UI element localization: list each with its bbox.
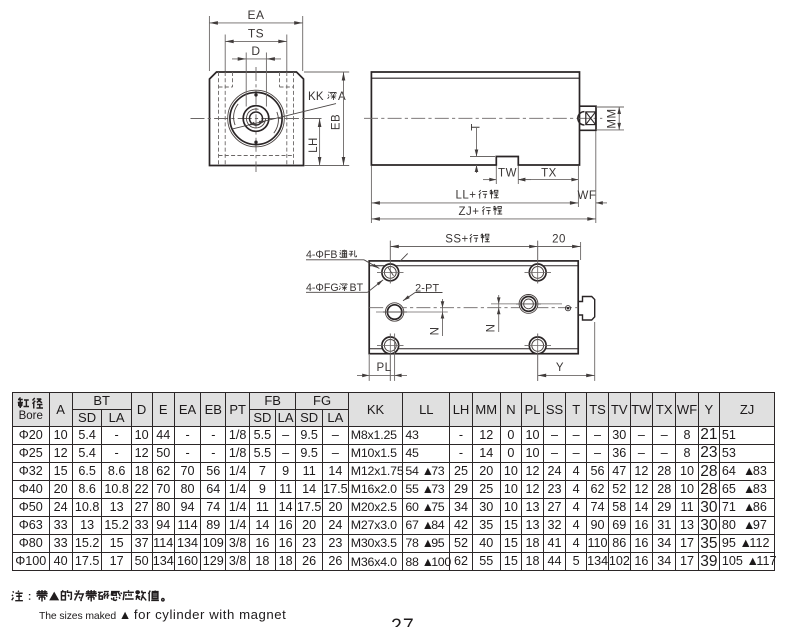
svg-text:PL: PL [376,362,391,374]
svg-text:WF: WF [578,190,597,202]
hole centerline top-left [389,241,391,284]
dim EA extension lines [208,16,210,71]
right port PT [519,295,538,314]
dim EB line [343,72,345,166]
svg-text:TW: TW [498,168,517,180]
front view bore circle thin [228,90,285,147]
dim T extension line [470,156,495,158]
right port center line [491,303,562,305]
svg-text:TX: TX [541,168,557,180]
svg-text:LL+: LL+ [455,190,476,202]
mounting hole FB bottom-left [382,337,399,354]
svg-text:Y: Y [556,362,564,374]
svg-text:EA: EA [247,8,264,22]
svg-text:D: D [251,44,260,58]
front view rod boss circle [243,106,269,132]
dim TW line [483,179,496,181]
rod thread hole arc [578,112,585,125]
rod thread X box [586,112,596,125]
front view KK thread minor circle [250,112,263,125]
front view vertical centerline [255,67,257,172]
dim TX line [518,179,578,181]
svg-text:LH: LH [308,137,320,153]
note line english [39,607,286,622]
dim D line [232,58,281,60]
svg-text:SS+: SS+ [445,234,469,246]
mounting hole FB bottom-right [529,337,546,354]
side view right extension line [577,166,579,207]
front view hidden bore lines [218,72,220,166]
dim T lower arrow [476,165,478,173]
bottom view bottom band line [369,348,578,350]
svg-text:TS: TS [248,27,264,41]
dim MM extension lines [596,106,624,108]
svg-text:MM: MM [607,108,619,128]
bottom view outline [369,261,578,354]
svg-text:ZJ+: ZJ+ [459,206,480,218]
front view KK thread major thin arc [247,109,266,128]
svg-text:KK: KK [308,91,324,103]
mounting hole FB top-left [382,264,399,281]
leader PT [403,293,415,301]
FB hole slash [388,267,394,276]
dim TS extension lines [224,35,226,72]
front view bore circle bold [230,92,282,144]
dim EA line [209,22,302,24]
hole centerline bottom-right [537,334,539,381]
rod end boss outline [580,106,597,130]
dim LL line [371,202,578,204]
note line chinese [11,589,186,604]
dim TS line [225,40,287,42]
svg-text:T: T [471,123,483,131]
rod end extension line [595,131,597,223]
dim PL line [357,374,407,376]
dim SS line [390,246,537,248]
dim Y line [538,374,595,376]
side view head cap line [371,77,579,79]
page number [391,615,415,627]
side view left extension line [370,166,372,223]
left port center line [376,311,448,313]
leader FG [368,280,384,293]
leader FB [364,260,379,269]
svg-text:A: A [338,91,346,103]
dim SS extension line right [580,242,582,260]
dim 20 line [538,246,581,248]
sensor dot [565,306,570,311]
hole centerline bottom-left [389,334,391,381]
dim LH extension line [304,118,322,120]
dim EB extension lines [304,71,349,73]
side view outline [371,72,579,165]
bottom view rod boss [578,297,595,321]
dim PL extension lines [368,355,370,381]
dim LH line [319,119,321,166]
front view thread relief arcs [234,104,239,125]
svg-text:EB: EB [331,114,343,130]
dim D extension lines [245,53,247,107]
leader KK深A line [233,104,336,129]
side view centerline [364,117,602,119]
dim ZJ line [371,218,595,220]
left port PT [385,303,403,321]
dim MM line [618,107,620,130]
screw hole dot top [255,94,258,97]
dim T leader line [476,128,478,157]
dim N left line [442,299,444,336]
front view horizontal centerline [191,118,322,120]
hole centerline top-right [537,241,539,284]
bottom view centerline [369,307,578,309]
front view body outline [210,72,304,166]
mounting hole FB top-right [529,264,546,281]
dim TW extension lines [495,166,497,184]
svg-text:N: N [430,327,442,336]
dim N right line [498,295,500,332]
dim Y extension line [594,322,596,381]
bottom view top band line [369,265,578,267]
hole crosshairs [389,241,391,284]
svg-text:N: N [486,324,498,333]
screw hole dot bottom [255,141,258,144]
port center lines over [383,311,407,313]
dim WF arrow segment [596,202,607,204]
svg-text:20: 20 [552,234,566,246]
